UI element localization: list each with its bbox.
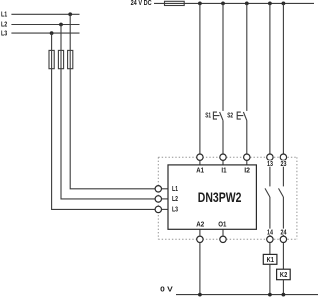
wire K2 to 0V [282,280,284,295]
stub L3 to module [162,208,169,210]
fuse F1 (L3 branch) [49,50,54,68]
terminal I1 [220,154,226,160]
svg-text:L2: L2 [172,196,178,203]
junction on L2 [59,23,63,27]
svg-text:I1: I1 [221,168,226,175]
svg-text:L3: L3 [172,206,178,213]
switch S1 pushbutton actuator [213,112,219,119]
stub L2 to module [162,198,169,200]
wire L2 horizontal bus [11,24,79,26]
svg-text:L1: L1 [172,186,178,193]
svg-text:I2: I2 [244,168,250,175]
terminal L3 [155,206,161,212]
svg-text:A1: A1 [196,168,204,175]
svg-text:S1: S1 [205,113,211,120]
stub A2 to module [199,229,201,236]
terminal 13 [267,154,273,160]
dashed module boundary right [296,157,298,239]
junction 0V/A2 [198,293,202,297]
wire L1 drop [70,14,155,189]
wire A2 to 0V [199,243,201,295]
junction 0V/K2 [282,293,286,297]
wire 23 drop [282,3,284,154]
terminal A2 [197,236,203,242]
fuse F2 (L2 branch) [58,50,63,68]
switch S1 NO contact blade [220,112,223,120]
junction rail/A1 [198,2,202,6]
terminal 14 [267,236,273,242]
wire L3 horizontal bus [11,32,79,34]
svg-text:24: 24 [281,229,287,236]
wire 13 drop [269,3,271,154]
pin number 13 [266,160,274,166]
svg-text:K2: K2 [280,272,287,279]
stub I2 to module [246,160,248,165]
relay contact 13-14 NO blade [265,188,270,197]
terminal I2 [244,154,250,160]
terminal L1 [155,186,161,192]
svg-text:23: 23 [281,161,287,168]
relay coil K1 [263,254,277,264]
junction rail/I2 [245,2,249,6]
wire L2 drop [61,25,155,199]
wire L3 drop [52,33,156,209]
wire A1 drop [199,3,201,154]
wire I1 drop lower [222,120,224,154]
svg-text:L2: L2 [1,21,7,28]
wire 0V rail [176,294,318,296]
terminal O1 [220,236,226,242]
wire L1 horizontal bus [11,13,79,15]
svg-text:DN3PW2: DN3PW2 [198,189,242,205]
fuse F3 (L1 branch) [68,50,73,68]
fuse F4 (24V rail) [165,1,185,5]
svg-text:24 V DC: 24 V DC [131,0,152,7]
wire I2 drop upper [246,3,248,111]
relay contact 23-24 NO blade [279,188,284,197]
wire K1 to 0V [269,264,271,294]
stub L1 to module [162,188,169,190]
terminal A1 [197,154,203,160]
terminal 24 [280,236,286,242]
dashed module boundary top [158,156,297,158]
junction rail/13 [268,2,272,6]
wire I1 drop upper [222,3,224,111]
wire 14 to K1 [269,243,271,255]
module DN3PW2 body [168,165,256,229]
junction rail/I1 [221,2,225,6]
wire 23 to contact [282,160,284,186]
wire I2 drop lower [246,120,248,154]
svg-text:S2: S2 [227,113,233,120]
svg-text:A2: A2 [196,222,204,229]
wire 13 to contact [269,160,271,186]
stub O1 to module [222,229,224,236]
terminal L2 [155,196,161,202]
junction 0V/K1 [268,293,272,297]
junction on L3 [50,31,54,35]
junction on L1 [68,12,72,16]
svg-text:O1: O1 [218,222,226,229]
wire contact to 14 [269,197,271,236]
dashed module boundary left [157,157,159,239]
switch S2 pushbutton actuator [237,112,243,119]
pin number 14 [266,229,274,235]
stub I1 to module [222,160,224,165]
svg-text:L3: L3 [1,30,7,37]
pin number 24 [280,229,288,235]
relay coil K2 [277,269,291,280]
wire 24 to K2 [282,243,284,270]
pin number 23 [280,160,288,166]
junction rail/23 [282,2,286,6]
stub A1 to module [199,160,201,165]
svg-text:K1: K1 [267,257,274,264]
wire 24V rail [154,2,314,4]
terminal 23 [280,154,286,160]
svg-text:L1: L1 [1,12,7,19]
wire contact to 24 [282,197,284,236]
svg-text:13: 13 [267,161,273,168]
svg-text:0 V: 0 V [160,287,173,294]
dashed module boundary bottom [158,238,297,240]
switch S2 NO contact blade [243,112,246,120]
svg-text:14: 14 [267,229,273,236]
